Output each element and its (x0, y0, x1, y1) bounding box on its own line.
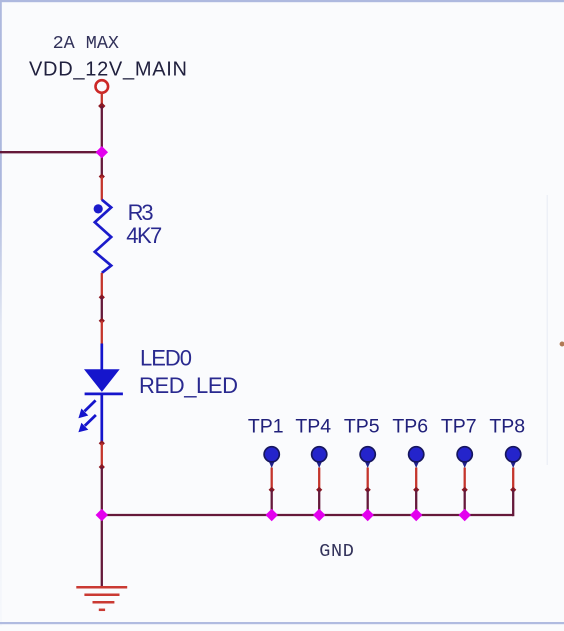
svg-text:R3: R3 (128, 200, 154, 225)
svg-text:TP8: TP8 (489, 415, 525, 437)
LED0 anode lead (blue) (100, 344, 103, 370)
sheet border top (0, 0, 564, 2)
junction TP7 magenta (458, 509, 470, 521)
LED0 cathode bar (85, 393, 123, 396)
resistor R3 zigzag (95, 200, 111, 273)
svg-text:GND: GND (319, 541, 354, 562)
testpoint TP4 (312, 447, 327, 515)
pin 1 anode of LED0 (red) (101, 321, 103, 344)
stray orange dot right edge (560, 342, 564, 347)
wire vertical terminal to junction A (101, 106, 103, 152)
LED0 emission arrow 2 (78, 415, 96, 432)
LED0 emission arrow 1 (78, 400, 95, 418)
junction TP1 magenta (265, 509, 277, 521)
pin 1 of R3 (red) (101, 177, 103, 201)
svg-text:4K7: 4K7 (126, 223, 162, 248)
wire horizontal GND bus (102, 514, 513, 516)
svg-text:TP4: TP4 (295, 415, 331, 437)
testpoint TP8 (506, 447, 521, 517)
svg-text:RED_LED: RED_LED (139, 373, 238, 398)
svg-text:2A MAX: 2A MAX (53, 33, 119, 54)
wire end marker (99, 464, 105, 470)
junction TP4 magenta (313, 509, 325, 521)
svg-text:TP6: TP6 (392, 415, 428, 437)
wire horizontal from left edge (0, 151, 102, 153)
testpoint TP1 (264, 447, 279, 515)
junction B magenta (96, 509, 108, 521)
testpoint TP7 (457, 447, 472, 515)
pin-1 dot of R3 (94, 204, 103, 213)
ground symbol (76, 587, 127, 610)
pin 2 of R3 (red) (101, 273, 103, 297)
wire end marker (99, 173, 105, 179)
testpoint TP5 (360, 447, 375, 515)
wire junction A to R3 pin (101, 152, 103, 176)
terminal pin stub (101, 93, 103, 105)
svg-text:LED0: LED0 (140, 345, 192, 370)
junction TP5 magenta (361, 509, 373, 521)
wire end marker (99, 318, 105, 324)
wire end marker (98, 102, 105, 109)
LED0 triangle (84, 369, 120, 392)
sheet border right faint (547, 195, 549, 465)
svg-text:TP7: TP7 (441, 415, 477, 437)
svg-text:TP5: TP5 (344, 415, 380, 437)
wire R3 to LED0 (101, 297, 103, 320)
svg-text:VDD_12V_MAIN: VDD_12V_MAIN (29, 59, 187, 81)
junction A magenta (96, 146, 108, 158)
wire LED0 to ground junction B (101, 467, 103, 515)
junction TP6 magenta (410, 509, 422, 521)
svg-text:TP1: TP1 (248, 415, 284, 437)
LED0 cathode lead (blue) (100, 394, 103, 442)
pin 2 cathode of LED0 (red) (101, 443, 103, 466)
power terminal VDD_12V_MAIN (96, 80, 109, 93)
wire junction B to ground symbol (101, 515, 103, 587)
sheet border bottom (0, 622, 564, 624)
wire end marker (99, 294, 105, 300)
wire end marker (99, 440, 105, 446)
testpoint TP6 (409, 447, 424, 515)
